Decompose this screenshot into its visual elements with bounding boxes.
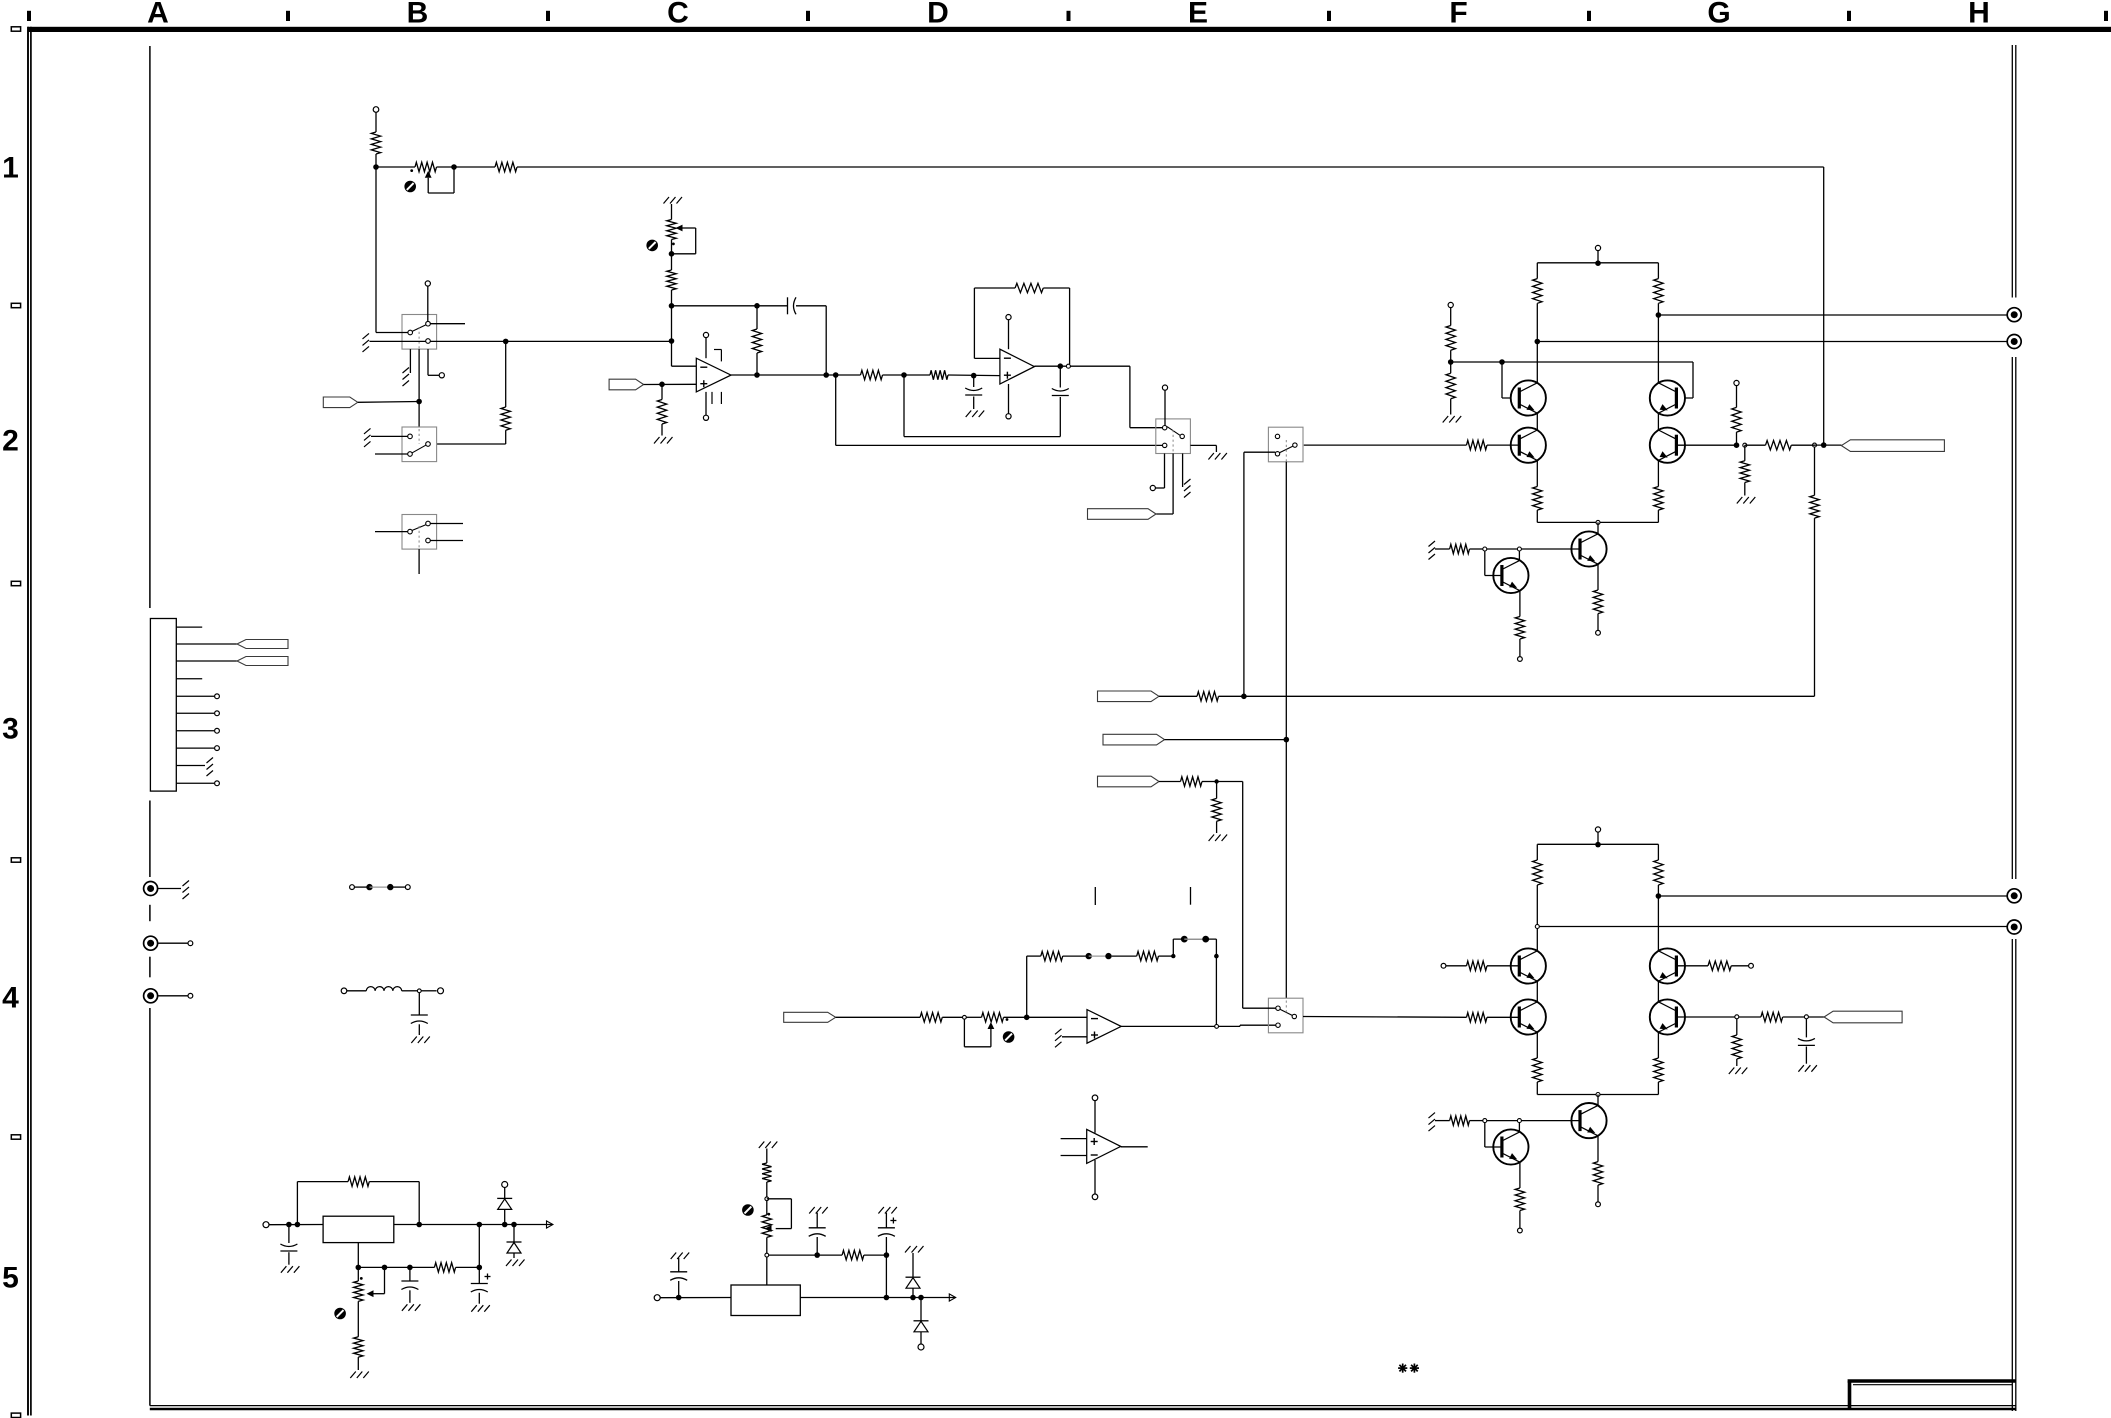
svg-text:D: D	[927, 0, 949, 30]
svg-text:A: A	[147, 0, 169, 30]
svg-text:G: G	[1707, 0, 1730, 30]
svg-text:2: 2	[2, 425, 19, 458]
svg-text:C: C	[667, 0, 689, 30]
svg-text:E: E	[1188, 0, 1208, 30]
svg-text:3: 3	[2, 713, 19, 746]
svg-text:B: B	[407, 0, 429, 30]
svg-text:1: 1	[2, 152, 19, 185]
svg-text:F: F	[1449, 0, 1467, 30]
svg-text:5: 5	[2, 1262, 19, 1295]
svg-text:4: 4	[2, 982, 19, 1015]
svg-text:H: H	[1968, 0, 1990, 30]
